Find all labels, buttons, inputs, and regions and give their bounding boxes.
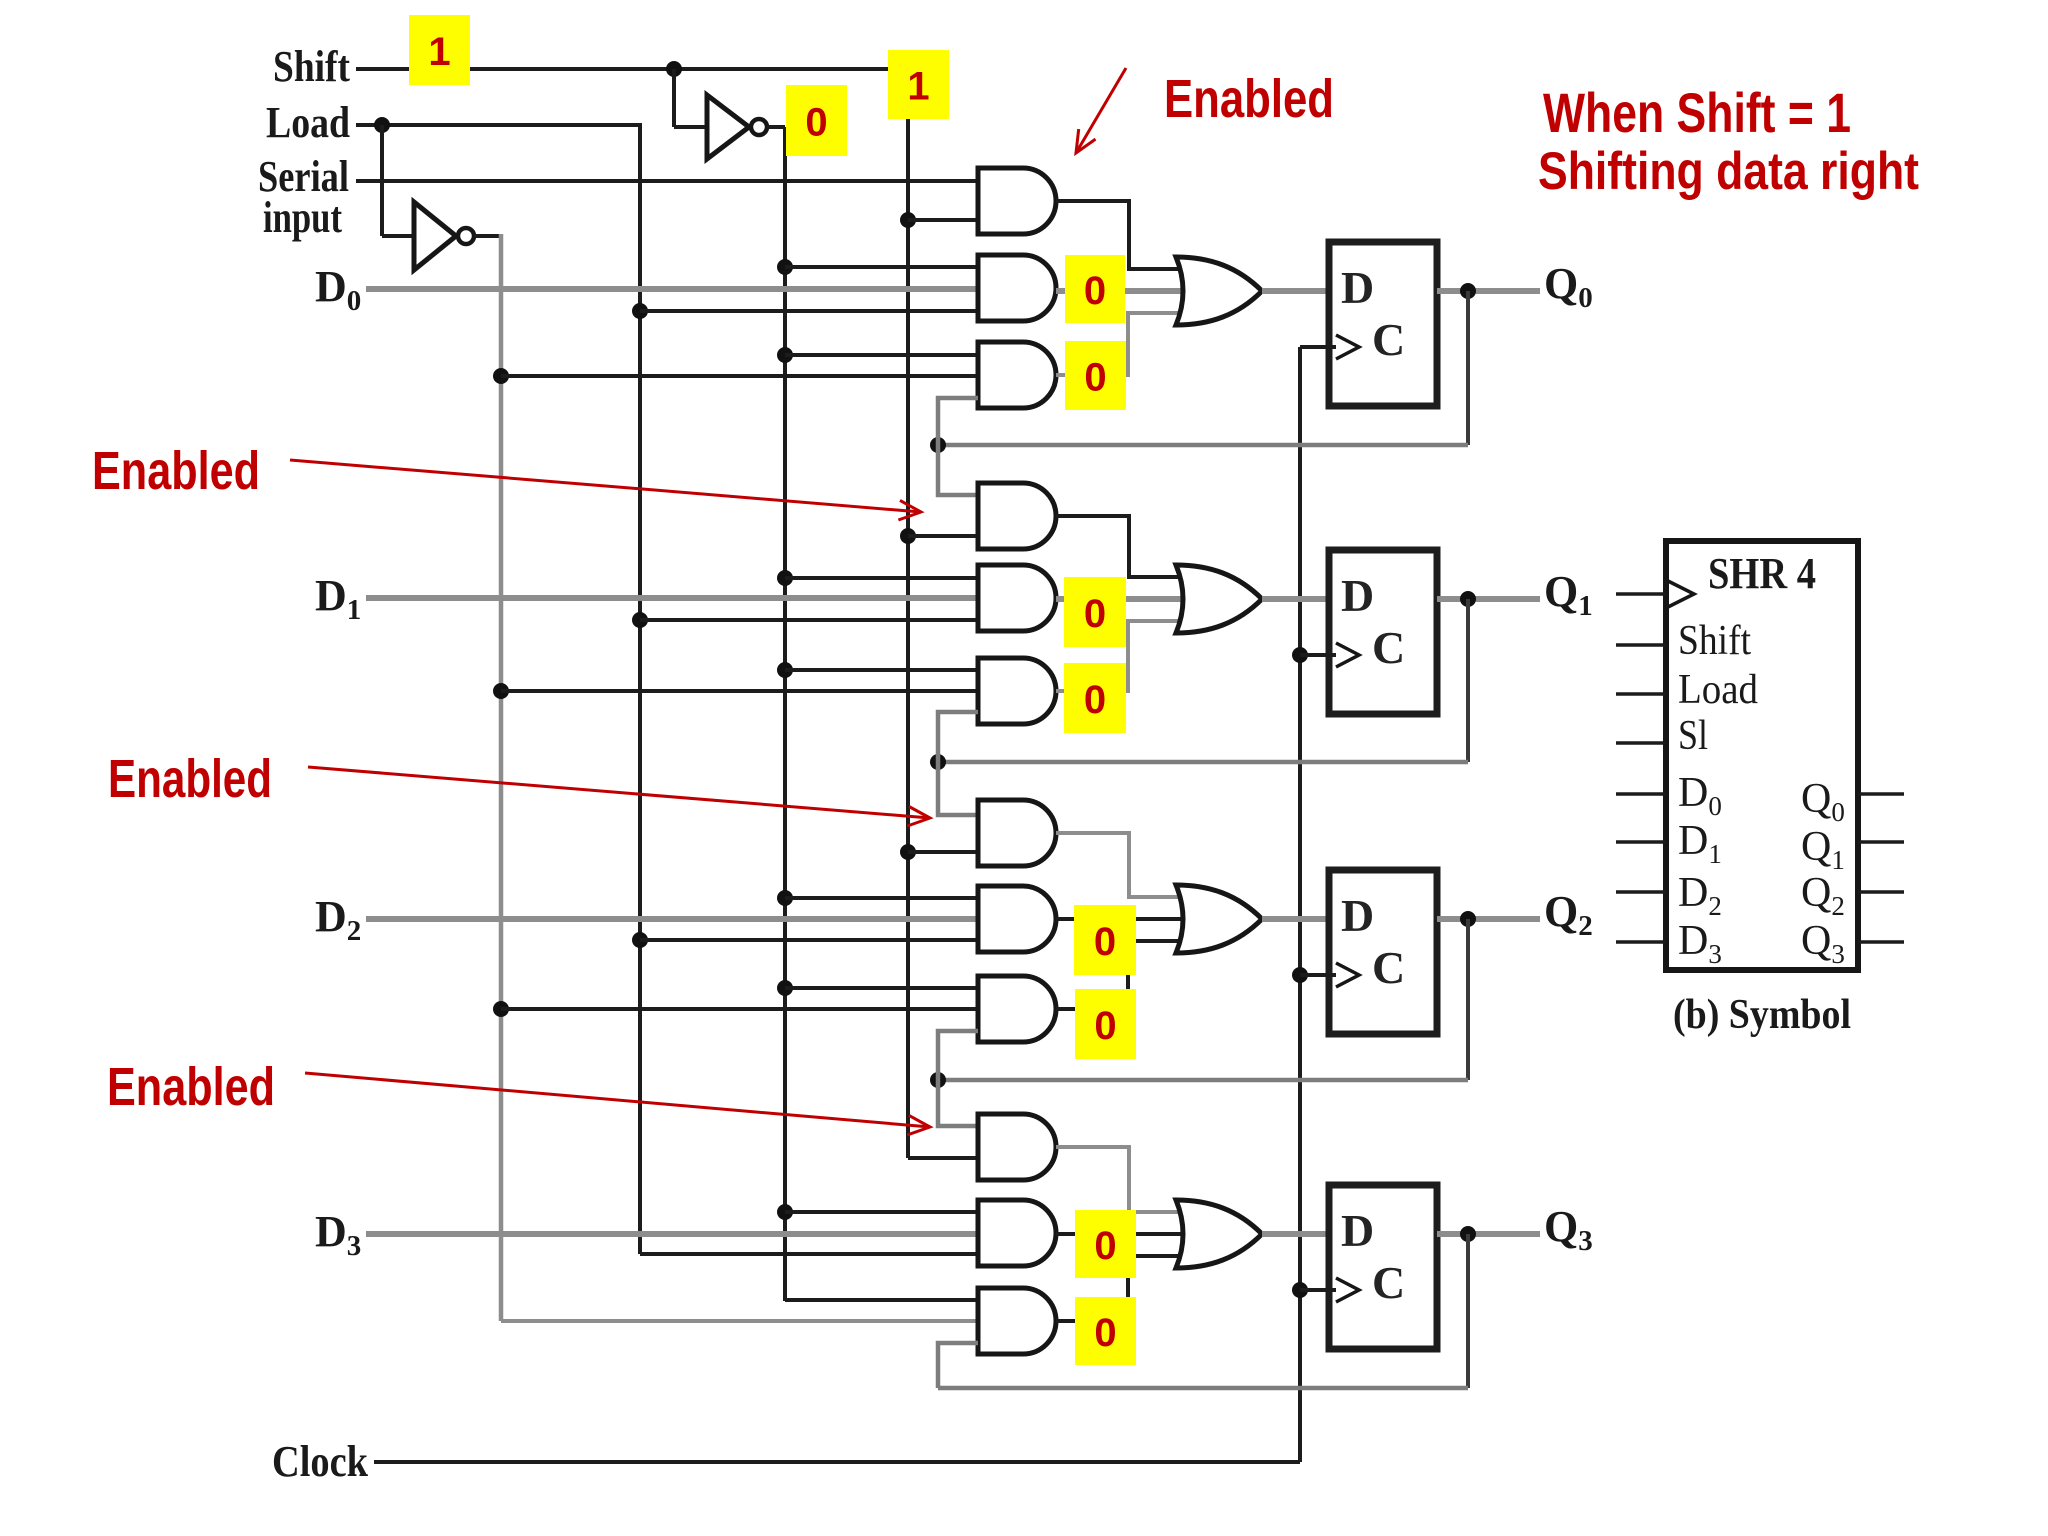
wire Q3 output <box>1437 1231 1540 1237</box>
node Q2 junction <box>1460 911 1476 927</box>
wire AND S0 output to OR O0 <box>1056 201 1190 269</box>
flip-flop FF1 clock chevron <box>1336 643 1359 667</box>
AND gate S3 (shift term) <box>978 1114 1056 1180</box>
node Q0 junction <box>1460 283 1476 299</box>
svg-text:D2: D2 <box>315 892 361 947</box>
wire Q2 feedback down to AND S3 <box>938 1080 978 1126</box>
svg-text:Enabled: Enabled <box>108 749 272 809</box>
value box 0 at AND K2 output <box>1075 989 1136 1059</box>
annotation Enabled 2 arrow <box>290 460 921 512</box>
inverter U2 (Load inverter) <box>414 202 456 270</box>
svg-text:Load: Load <box>1678 667 1758 713</box>
value box 0 at AND L3 output <box>1075 1210 1136 1278</box>
node NOT-Shift tap to AND L0 <box>777 259 793 275</box>
wire D2 input <box>366 916 978 922</box>
value box 0 at AND K3 output <box>1075 1297 1136 1365</box>
wire OR O3 output to flip-flop FF3 D <box>1262 1231 1329 1237</box>
wire NOT-Shift vertical (net SHIFTn) <box>767 125 785 129</box>
wire OR O2 output to flip-flop FF2 D <box>1262 916 1329 922</box>
wire Clock input (net CLK) <box>374 1460 1300 1464</box>
D flip-flop FF3 <box>1329 1185 1437 1349</box>
symbol pin wire right Q2 <box>1858 890 1904 894</box>
AND gate S2 (shift term) <box>978 800 1056 866</box>
wire NOT-Shift to AND K2 <box>785 986 978 990</box>
value box 0 at U1 output <box>786 85 847 156</box>
svg-text:1: 1 <box>428 30 450 74</box>
wire Q2 feedback down <box>1466 919 1470 1080</box>
wire Q2 output <box>1437 916 1540 922</box>
wire AND K1 output to OR O1 <box>1056 621 1190 691</box>
svg-text:D: D <box>1341 570 1374 621</box>
node Clock tap FF1 <box>1292 647 1308 663</box>
node Load branch junction <box>374 117 390 133</box>
wire D3 input <box>366 1231 978 1237</box>
svg-text:0: 0 <box>1084 269 1106 313</box>
wire Q3 feedback across <box>938 1386 1468 1391</box>
OR gate O2 <box>1176 885 1262 953</box>
wire AND K2 output to OR O2 <box>1056 941 1190 1009</box>
svg-text:0: 0 <box>1094 920 1116 964</box>
value box 1 on Shift vertical <box>888 50 949 119</box>
svg-text:C: C <box>1372 622 1405 673</box>
wire Load input (net LOAD) <box>356 123 640 127</box>
svg-text:Q2: Q2 <box>1544 887 1593 942</box>
symbol pin wire clock <box>1616 592 1666 596</box>
value box 0 at AND L1 output <box>1064 577 1126 647</box>
AND gate K3 (keep term) <box>978 1288 1056 1354</box>
wire NOT-Shift to AND L2 <box>785 896 978 900</box>
flip-flop FF0 clock chevron <box>1336 335 1359 359</box>
node Shift tap bit2 <box>900 844 916 860</box>
svg-text:D0: D0 <box>315 262 361 317</box>
wire Serial input (net SI) <box>356 179 978 183</box>
wire NOT-Shift to AND L3 <box>785 1210 978 1214</box>
symbol pin wire left D2 <box>1616 890 1666 894</box>
wire Shift tap to AND S2 <box>908 850 978 854</box>
wire Shift vertical (net SHIFT) <box>906 100 910 1158</box>
OR gate O1 <box>1176 565 1262 633</box>
svg-text:Q3: Q3 <box>1544 1202 1593 1257</box>
symbol pin wire left D0 <box>1616 792 1666 796</box>
wire NOT-Load to AND K0 <box>501 374 978 378</box>
wire Q1 output <box>1437 596 1540 602</box>
AND gate L0 (load term) <box>978 255 1056 321</box>
wire AND S2 output to OR O2 <box>1056 833 1190 897</box>
svg-text:0: 0 <box>1084 356 1106 400</box>
symbol pin wire left Shift <box>1616 643 1666 647</box>
wire Clock to FF3 C input <box>1300 1288 1336 1292</box>
symbol pin wire left Load <box>1616 692 1666 696</box>
AND gate L3 (load term) <box>978 1200 1056 1266</box>
svg-text:Enabled: Enabled <box>92 441 260 501</box>
node Shift branch junction <box>666 61 682 77</box>
wire Q0 feedback up to AND K0 <box>938 398 978 445</box>
svg-text:0: 0 <box>1094 1224 1116 1268</box>
svg-text:Enabled: Enabled <box>107 1057 275 1117</box>
wire NOT-Load to AND K1 <box>501 689 978 693</box>
AND gate L1 (load term) <box>978 565 1056 631</box>
wire NOT-Shift to AND L1 <box>785 576 978 580</box>
wire Shift to inverter U1 input <box>672 69 676 127</box>
svg-text:0: 0 <box>1094 1004 1116 1048</box>
wire Load tap to AND L0 <box>640 309 978 313</box>
node NOT-Load tap bit2 <box>493 1001 509 1017</box>
wire Q2 feedback across <box>938 1078 1468 1083</box>
svg-text:Q1: Q1 <box>1544 567 1593 622</box>
svg-text:C: C <box>1372 1257 1405 1308</box>
svg-text:Enabled: Enabled <box>1164 69 1334 129</box>
symbol SHR4 clock chevron <box>1668 581 1694 607</box>
svg-text:input: input <box>263 193 342 242</box>
OR gate O0 <box>1176 257 1262 325</box>
node NOT-Shift tap to AND L2 <box>777 890 793 906</box>
svg-text:Load: Load <box>266 98 350 147</box>
annotation Enabled 1 arrow <box>1076 68 1126 153</box>
wire OR O0 output to flip-flop FF0 D <box>1262 288 1329 294</box>
value box 0 at AND L0 output <box>1065 255 1125 323</box>
D flip-flop FF0 <box>1329 242 1437 406</box>
wire Q0 feedback across <box>938 443 1468 448</box>
svg-text:Shift: Shift <box>1678 618 1751 664</box>
wire Clock to FF2 C input <box>1300 973 1336 977</box>
wire Q1 feedback across <box>938 760 1468 765</box>
flip-flop FF2 clock chevron <box>1336 963 1359 987</box>
wire NOT-Load to AND K2 <box>501 1007 978 1011</box>
symbol pin wire left D1 <box>1616 840 1666 844</box>
wire AND K3 output to OR O3 <box>1056 1256 1190 1321</box>
AND gate S1 (shift term) <box>978 483 1056 549</box>
symbol pin wire right Q0 <box>1858 792 1904 796</box>
symbol pin wire right Q1 <box>1858 840 1904 844</box>
node Shift tap bit1 <box>900 528 916 544</box>
node NOT-Load tap bit0 <box>493 368 509 384</box>
svg-text:SHR 4: SHR 4 <box>1708 549 1816 598</box>
svg-text:Sl: Sl <box>1678 713 1708 759</box>
value box 1 on Shift line <box>409 15 470 85</box>
node Q1 feedback junction <box>930 754 946 770</box>
node NOT-Shift tap to AND K1 <box>777 662 793 678</box>
svg-text:1: 1 <box>907 65 929 109</box>
wire Q1 feedback up to AND K1 <box>938 712 978 762</box>
wire AND K0 output to OR O0 <box>1056 313 1190 375</box>
node Load tap bit0 <box>632 303 648 319</box>
wire NOT-Shift to AND L0 <box>785 265 978 269</box>
wire Load to inverter U2 input <box>380 125 384 236</box>
node Q0 feedback junction <box>930 437 946 453</box>
node Clock tap FF2 <box>1292 967 1308 983</box>
svg-text:0: 0 <box>805 101 827 145</box>
annotation Enabled 4 arrow <box>305 1073 930 1127</box>
wire NOT-Load to AND K3 <box>501 1319 978 1323</box>
symbol SHR4 box <box>1666 541 1858 970</box>
svg-text:D1: D1 <box>315 571 361 626</box>
svg-text:0: 0 <box>1094 1311 1116 1355</box>
D flip-flop FF2 <box>1329 870 1437 1034</box>
node NOT-Shift tap to AND K0 <box>777 347 793 363</box>
AND gate L2 (load term) <box>978 886 1056 952</box>
wire Q3 feedback up to AND K3 <box>938 1343 978 1388</box>
svg-text:(b) Symbol: (b) Symbol <box>1673 992 1851 1038</box>
wire NOT-Load vertical (net LOADn) <box>474 234 501 238</box>
wire Q2 feedback up to AND K2 <box>938 1031 978 1080</box>
wire AND L2 output to OR O2 <box>1056 917 1190 921</box>
node Q1 junction <box>1460 591 1476 607</box>
svg-text:D: D <box>1341 890 1374 941</box>
wire Shift tap to AND S3 <box>908 1156 978 1160</box>
wire Shift tap to AND S1 <box>908 534 978 538</box>
wire Shift input (net SHIFT) <box>356 67 890 71</box>
wire AND S3 output to OR O3 <box>1056 1147 1190 1212</box>
node NOT-Shift tap to AND L3 <box>777 1204 793 1220</box>
wire Shift tap to AND S0 <box>908 218 978 222</box>
wire Q1 feedback down <box>1466 599 1470 762</box>
flip-flop FF3 clock chevron <box>1336 1278 1359 1302</box>
svg-text:0: 0 <box>1084 592 1106 636</box>
wire AND L0 output to OR O0 <box>1056 288 1190 294</box>
symbol pin wire right Q3 <box>1858 940 1904 944</box>
wire Q0 feedback down <box>1466 291 1470 445</box>
node Shift tap bit0 <box>900 212 916 228</box>
inverter U1 (Shift inverter) <box>707 95 749 159</box>
svg-text:When Shift = 1: When Shift = 1 <box>1543 81 1851 144</box>
symbol pin wire left D3 <box>1616 940 1666 944</box>
wire NOT-Shift to AND K1 <box>785 668 978 672</box>
wire Clock to FF1 C input <box>1300 653 1336 657</box>
node NOT-Load tap bit1 <box>493 683 509 699</box>
wire Load tap to AND L3 <box>640 1252 978 1256</box>
wire D0 input <box>366 286 978 292</box>
node Load tap bit1 <box>632 612 648 628</box>
wire AND L3 output to OR O3 <box>1056 1232 1190 1236</box>
value box 0 at AND K0 output <box>1065 341 1126 410</box>
wire OR O1 output to flip-flop FF1 D <box>1262 596 1329 602</box>
svg-text:Shifting data right: Shifting data right <box>1538 142 1919 201</box>
svg-text:Clock: Clock <box>272 1437 368 1486</box>
OR gate O3 <box>1176 1200 1262 1268</box>
wire AND L1 output to OR O1 <box>1056 596 1190 602</box>
annotation Enabled 3 arrow <box>308 767 930 818</box>
wire Q0 feedback down to AND S1 <box>938 445 978 495</box>
value box 0 at AND K1 output <box>1064 663 1126 733</box>
wire Q0 output <box>1437 288 1540 294</box>
node NOT-Shift tap to AND L1 <box>777 570 793 586</box>
wire D1 input <box>366 595 978 601</box>
svg-text:0: 0 <box>1084 678 1106 722</box>
AND gate K1 (keep term) <box>978 658 1056 724</box>
wire NOT-Shift to AND K3 <box>785 1298 978 1302</box>
wire Clock to FF0 C input <box>1300 345 1336 349</box>
wire Load tap to AND L1 <box>640 618 978 622</box>
svg-text:D: D <box>1341 1205 1374 1256</box>
D flip-flop FF1 <box>1329 550 1437 714</box>
wire Q3 feedback down <box>1466 1234 1470 1388</box>
node Q3 junction <box>1460 1226 1476 1242</box>
value box 0 at AND L2 output <box>1074 905 1136 975</box>
wire Clock vertical to flip-flop clocks <box>1298 347 1302 1462</box>
node Q2 feedback junction <box>930 1072 946 1088</box>
AND gate K0 (keep term) <box>978 342 1056 408</box>
wire NOT-Shift to AND K0 <box>785 353 978 357</box>
node NOT-Shift tap to AND K2 <box>777 980 793 996</box>
node Clock tap FF3 <box>1292 1282 1308 1298</box>
wire AND S1 output to OR O1 <box>1056 516 1190 577</box>
svg-text:C: C <box>1372 942 1405 993</box>
svg-text:Q0: Q0 <box>1544 259 1593 314</box>
svg-text:Shift: Shift <box>273 42 350 91</box>
symbol pin wire left Sl <box>1616 741 1666 745</box>
wire Q1 feedback down to AND S2 <box>938 762 978 815</box>
svg-text:D3: D3 <box>315 1207 361 1262</box>
svg-text:C: C <box>1372 314 1405 365</box>
svg-text:D: D <box>1341 262 1374 313</box>
AND gate K2 (keep term) <box>978 976 1056 1042</box>
wire Load tap to AND L2 <box>640 938 978 942</box>
node Load tap bit2 <box>632 932 648 948</box>
AND gate S0 (shift term) <box>978 168 1056 234</box>
